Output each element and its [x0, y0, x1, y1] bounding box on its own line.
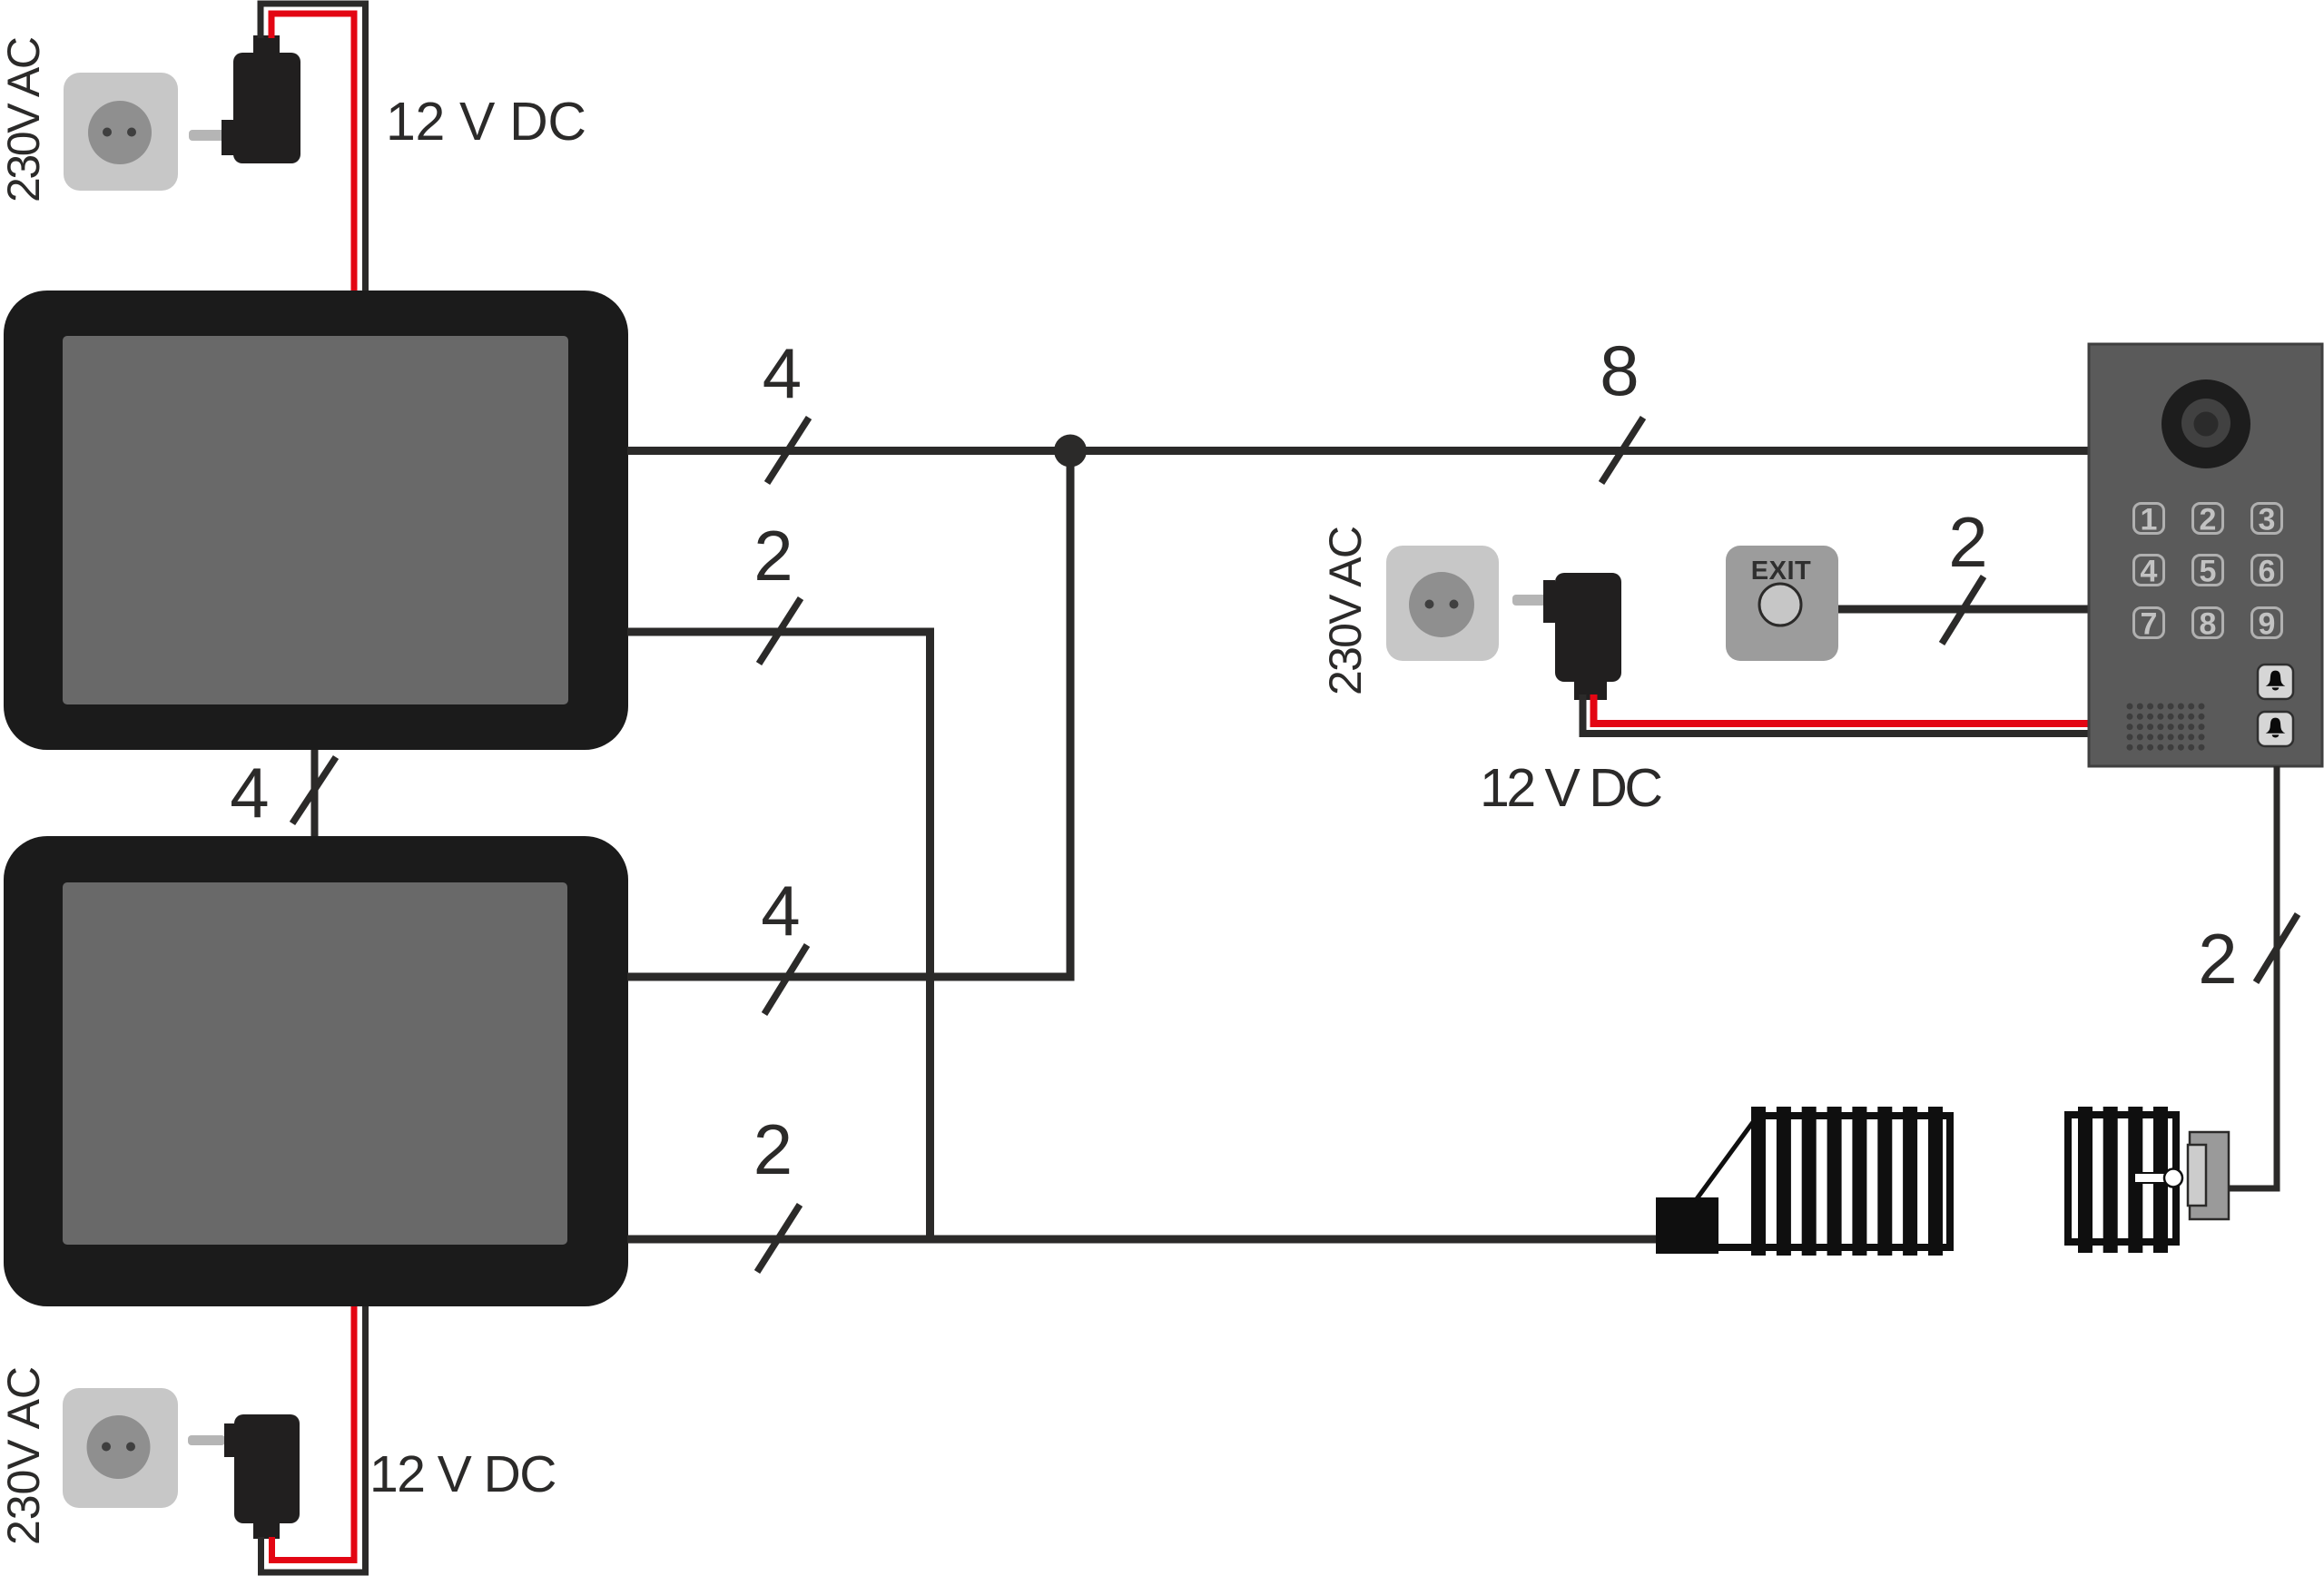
wicket gate (door): [2064, 1107, 2180, 1253]
keypad button 7: [2134, 607, 2164, 642]
slash 4-core (monitor M2 branch): [764, 945, 807, 1014]
svg-text:4: 4: [230, 753, 269, 832]
slash 2-core (door station lock wire): [2256, 914, 2298, 982]
keypad button 9: [2252, 607, 2282, 642]
svg-text:1: 1: [2141, 503, 2158, 537]
door handle: [2134, 1169, 2182, 1187]
svg-text:3: 3: [2259, 503, 2276, 537]
svg-text:6: 6: [2259, 555, 2276, 589]
junction node: [1054, 435, 1087, 468]
slash 2-core (exit button wire): [1942, 576, 1984, 644]
svg-text:12 V DC: 12 V DC: [369, 1445, 556, 1503]
keypad button 8: [2193, 607, 2223, 642]
svg-text:4: 4: [761, 871, 800, 951]
svg-text:4: 4: [2141, 555, 2158, 589]
wire black 12V DC (adapter PSU2 to door station): [1583, 694, 2092, 734]
wire 2-core (exit button to door station): [1838, 606, 2091, 614]
wire 4-core (junction to monitor M2): [627, 451, 1070, 978]
wire red 12V DC (top, adapter to monitor M1): [271, 14, 354, 291]
svg-text:2: 2: [753, 1109, 793, 1189]
svg-text:2: 2: [2200, 503, 2217, 537]
wire red 12V DC (adapter PSU2 to door station): [1594, 694, 2092, 724]
door station panel: [2089, 344, 2322, 766]
power adapter PSU3 (bottom left): [188, 1414, 300, 1539]
power adapter PSU1 (top left): [189, 35, 300, 163]
svg-text:8: 8: [2200, 607, 2217, 642]
keypad button 3: [2252, 503, 2282, 537]
socket 230V AC (top left): [64, 73, 178, 191]
svg-text:230V AC: 230V AC: [1320, 526, 1371, 695]
svg-text:8: 8: [1600, 330, 1639, 410]
speaker grille: [2127, 704, 2205, 751]
keypad button 2: [2193, 503, 2223, 537]
svg-text:2: 2: [2198, 919, 2237, 999]
socket 230V AC (bottom left): [63, 1388, 178, 1508]
sliding gate: [1718, 1107, 1954, 1256]
svg-text:2: 2: [1948, 502, 1987, 582]
door station camera: [2162, 379, 2250, 468]
power adapter PSU2 (middle): [1512, 573, 1621, 700]
slash 2-core (monitor M2 lock wire): [757, 1205, 800, 1272]
electric strike lock: [2188, 1132, 2229, 1219]
bell button 1: [2258, 665, 2293, 699]
monitor M2: [4, 836, 628, 1306]
svg-text:2: 2: [753, 516, 793, 596]
svg-text:230V AC: 230V AC: [0, 1366, 49, 1545]
svg-text:9: 9: [2259, 607, 2276, 642]
svg-text:12 V DC: 12 V DC: [386, 92, 586, 152]
svg-text:4: 4: [763, 333, 802, 413]
svg-text:EXIT: EXIT: [1751, 557, 1811, 586]
svg-text:12 V DC: 12 V DC: [1480, 758, 1661, 818]
wire 4-core (monitor M1 to monitor M2): [311, 750, 319, 836]
svg-text:7: 7: [2141, 607, 2158, 642]
wire black 12V DC (bottom, adapter to monitor M2): [261, 1306, 366, 1572]
keypad button 1: [2134, 503, 2164, 537]
gate motor arm: [1696, 1122, 1753, 1200]
exit button: [1726, 546, 1838, 661]
keypad button 4: [2134, 555, 2164, 589]
svg-text:230V AC: 230V AC: [0, 36, 49, 202]
socket 230V AC (middle): [1386, 546, 1499, 661]
wire bus (monitor M1 to door station, 4/8 core): [627, 447, 2091, 455]
slash 2-core (monitor M1 lock wire): [759, 598, 801, 664]
bell button 2: [2258, 712, 2293, 746]
keypad button 6: [2252, 555, 2282, 589]
slash 4-core (monitor M1 bus): [767, 418, 809, 483]
wire red 12V DC (bottom, adapter to monitor M2): [272, 1306, 355, 1561]
wire black 12V DC (top, adapter to monitor M1): [261, 4, 366, 291]
keypad button 5: [2193, 555, 2223, 589]
gate motor block: [1656, 1197, 1718, 1254]
svg-text:5: 5: [2200, 555, 2217, 589]
wire 2-core (door station to strike lock): [2229, 766, 2277, 1188]
wire 2-core (monitor M2 to gate motor): [627, 1236, 1656, 1244]
slash 8-core (bus to door station): [1601, 418, 1643, 483]
wire 2-core (monitor M1 to lock line): [627, 632, 931, 1239]
slash 4-core (between monitors): [292, 757, 336, 823]
monitor M1: [4, 291, 628, 750]
